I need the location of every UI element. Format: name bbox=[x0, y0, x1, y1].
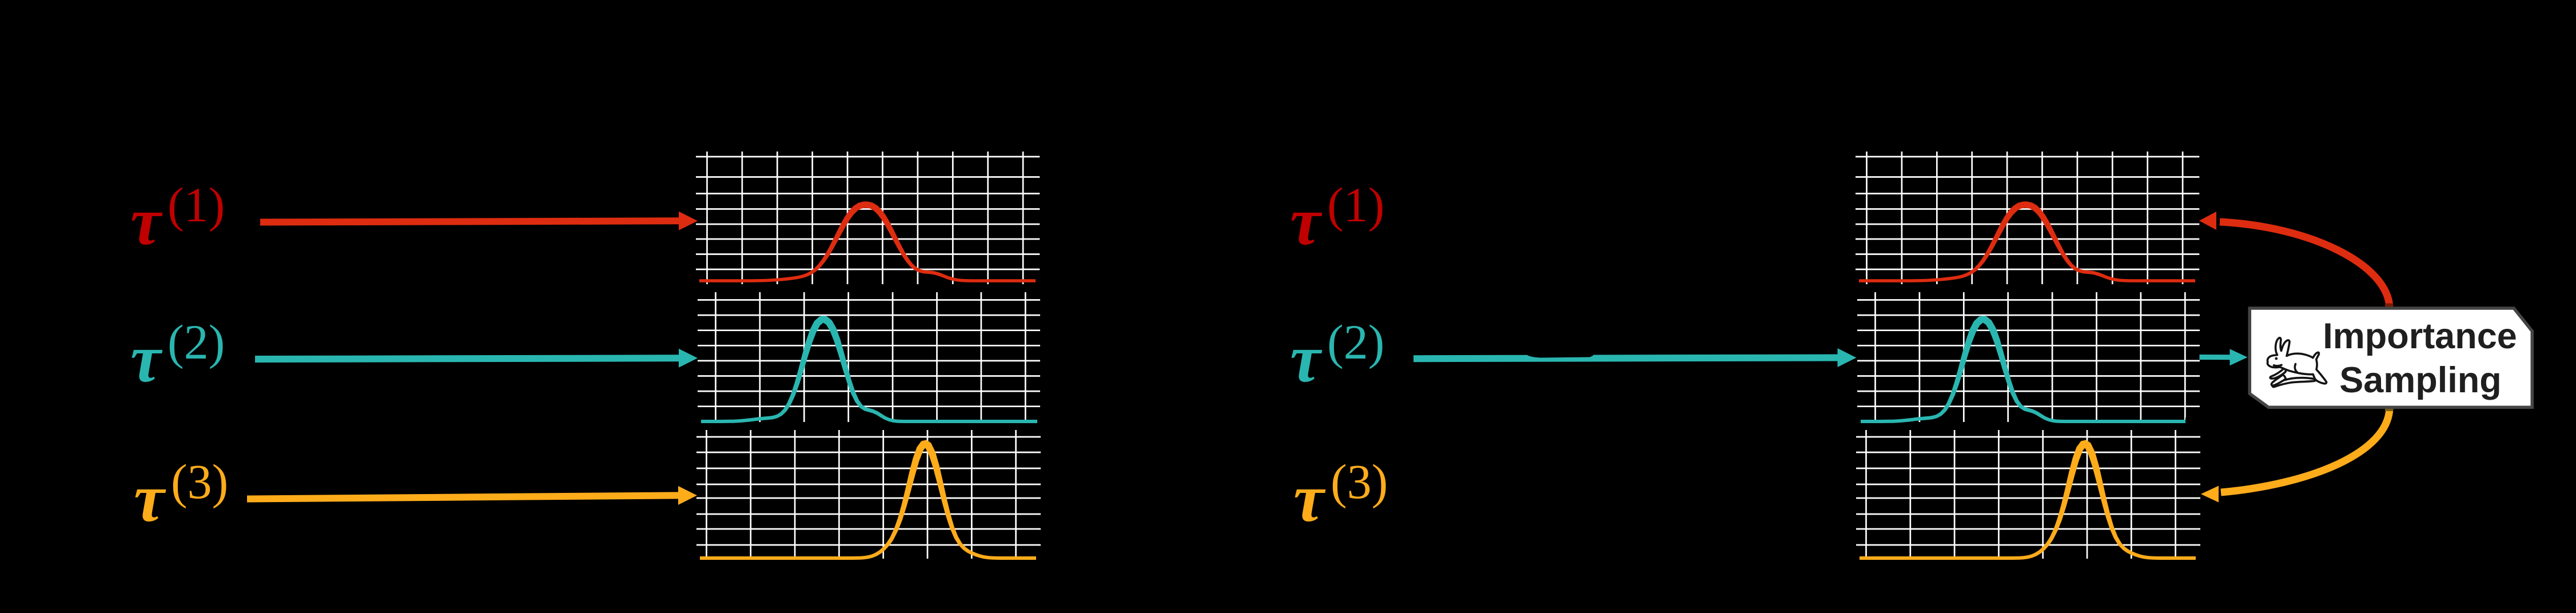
curve plot-L2 bbox=[701, 316, 1037, 423]
curve plot-R3 bbox=[1860, 440, 2196, 560]
svg-text:(3): (3) bbox=[1331, 454, 1388, 509]
grid plot-L3 bbox=[696, 430, 1041, 559]
curved arrow orange bbox=[2221, 408, 2390, 492]
svg-text:τ: τ bbox=[134, 460, 166, 536]
svg-text:Importance: Importance bbox=[2323, 316, 2517, 356]
curve plot-L3 bbox=[700, 440, 1036, 560]
grid plot-L1 bbox=[696, 152, 1040, 284]
svg-text:τ: τ bbox=[130, 183, 163, 259]
icon rabbit bbox=[2267, 338, 2326, 387]
curve plot-L1 bbox=[699, 201, 1036, 282]
arrow teal-left bbox=[255, 349, 698, 368]
dark stub orange arrow under border bbox=[2385, 407, 2393, 412]
grid plot-R1 bbox=[1856, 152, 2199, 284]
svg-text:τ: τ bbox=[1290, 320, 1323, 396]
svg-text:τ: τ bbox=[130, 320, 163, 396]
arrow teal-to-box bbox=[2200, 349, 2248, 365]
curve plot-R1 bbox=[1859, 201, 2195, 282]
dark stub red arrow under border bbox=[2385, 304, 2393, 308]
arrow orange-left bbox=[247, 486, 697, 505]
grid plot-R2 bbox=[1857, 292, 2200, 422]
svg-text:(2): (2) bbox=[168, 315, 225, 369]
curved arrow red bbox=[2220, 222, 2390, 307]
svg-text:(3): (3) bbox=[171, 454, 228, 509]
grid plot-L2 bbox=[698, 292, 1040, 422]
arrow teal-right bbox=[1414, 348, 1857, 367]
svg-text:(2): (2) bbox=[1327, 315, 1384, 369]
grid plot-R3 bbox=[1856, 430, 2200, 559]
svg-text:(1): (1) bbox=[1327, 177, 1384, 232]
box importance-sampling bbox=[2249, 308, 2532, 407]
svg-text:(1): (1) bbox=[168, 177, 225, 232]
svg-text:τ: τ bbox=[1293, 460, 1326, 536]
black trim over RP2 baseline end bbox=[2185, 417, 2200, 426]
arrow red-left bbox=[260, 212, 698, 230]
svg-text:Sampling: Sampling bbox=[2339, 360, 2502, 400]
svg-text:τ: τ bbox=[1290, 183, 1323, 259]
curve plot-R2 bbox=[1861, 316, 2197, 423]
notch on teal arrow bbox=[1526, 342, 1595, 358]
